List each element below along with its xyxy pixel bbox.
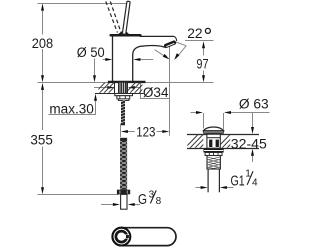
svg-text:Ø34: Ø34 <box>143 85 169 101</box>
svg-text:8: 8 <box>156 196 162 207</box>
svg-text:208: 208 <box>32 36 53 52</box>
svg-text:Ø 63: Ø 63 <box>239 97 269 113</box>
svg-text:355: 355 <box>30 133 53 149</box>
svg-text:97: 97 <box>196 56 208 72</box>
svg-text:4: 4 <box>252 178 258 189</box>
svg-text:Ø 50: Ø 50 <box>77 45 105 61</box>
svg-text:G1: G1 <box>231 173 245 190</box>
svg-text:32-45: 32-45 <box>231 136 267 152</box>
svg-text:22: 22 <box>187 26 203 42</box>
svg-text:G: G <box>138 191 147 208</box>
svg-text:123: 123 <box>136 125 155 141</box>
svg-text:max.30: max.30 <box>49 101 93 117</box>
